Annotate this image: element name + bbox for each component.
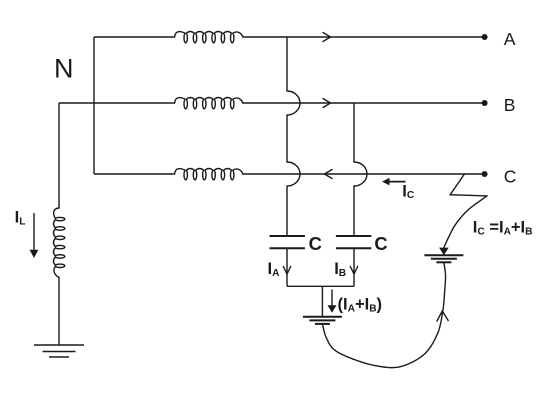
svg-text:IB: IB xyxy=(334,260,346,279)
svg-text:(IA+IB): (IA+IB) xyxy=(338,296,383,315)
svg-text:IA: IA xyxy=(268,260,281,279)
svg-text:IC =IA+IB: IC =IA+IB xyxy=(473,219,533,238)
svg-text:A: A xyxy=(504,29,516,49)
svg-text:IL: IL xyxy=(15,209,26,228)
svg-text:B: B xyxy=(504,95,516,115)
svg-text:C: C xyxy=(309,233,322,254)
svg-text:IC: IC xyxy=(402,182,415,201)
svg-text:N: N xyxy=(54,53,74,83)
svg-text:C: C xyxy=(504,167,517,187)
svg-text:C: C xyxy=(374,233,387,254)
